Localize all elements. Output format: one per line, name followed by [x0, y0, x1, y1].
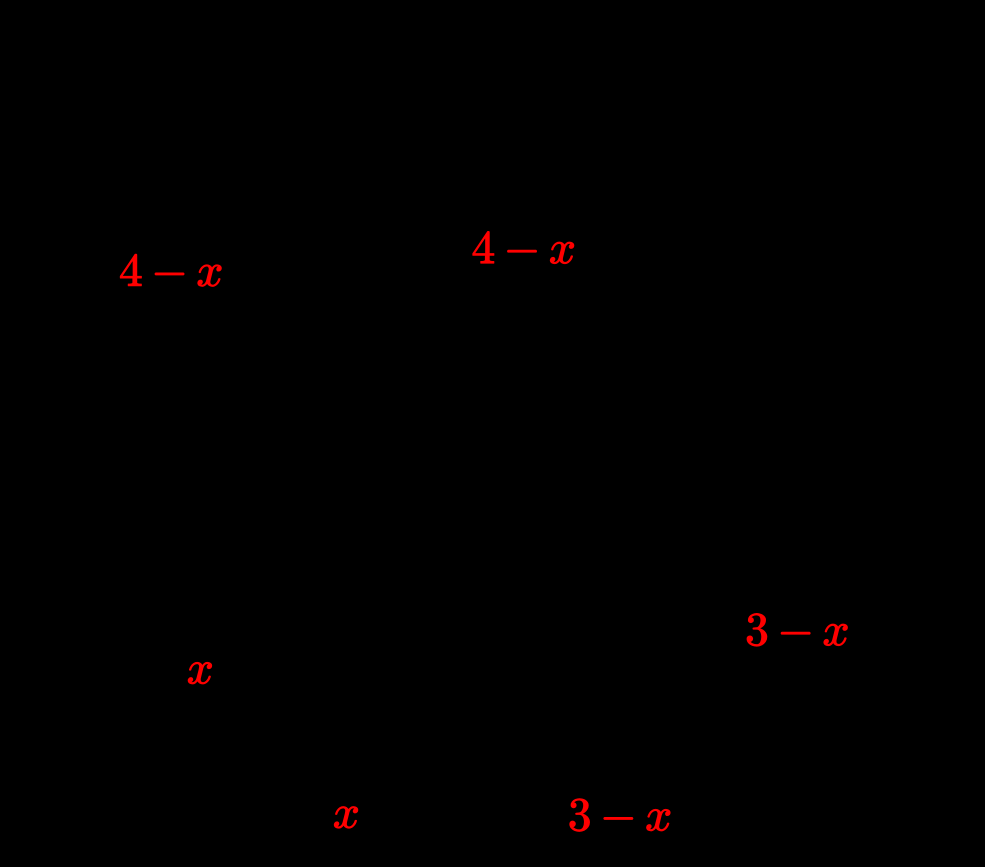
label 'x' (left lower)	[188, 662, 212, 684]
label '3 - x' (right side)	[747, 613, 847, 646]
label '3 - x' (bottom)	[570, 799, 670, 832]
label '4 - x' (top middle)	[473, 231, 574, 263]
label 'x' (bottom left)	[334, 807, 358, 829]
label '4 - x' (left side)	[120, 254, 221, 286]
